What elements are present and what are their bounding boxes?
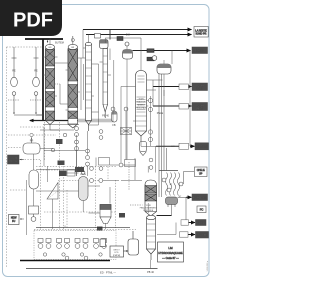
svg-text:GRO PCM: GRO PCM — [193, 196, 207, 200]
svg-text:PB 40: PB 40 — [147, 271, 154, 274]
svg-text:PDF: PDF — [13, 10, 53, 32]
svg-text:FB: FB — [112, 124, 116, 127]
svg-text:DM: DM — [126, 34, 130, 37]
svg-text:NEMENT: NEMENT — [137, 105, 145, 107]
svg-text:SMLM: SMLM — [80, 174, 86, 176]
svg-text:GAZOLE: GAZOLE — [197, 233, 208, 237]
svg-text:FRACTIONNEMENT: FRACTIONNEMENT — [140, 206, 158, 209]
svg-text:FRACTION: FRACTION — [136, 101, 146, 104]
svg-text:ORTLY: ORTLY — [113, 250, 120, 252]
svg-text:(PMPM): (PMPM) — [113, 255, 121, 257]
svg-text:— Code 87 —: — Code 87 — — [162, 256, 179, 260]
svg-text:BUTEM: BUTEM — [55, 42, 64, 45]
svg-text:LIVM: LIVM — [197, 106, 203, 110]
svg-text:PELE: PELE — [157, 112, 164, 115]
svg-text:BDBE: BDBE — [196, 49, 204, 53]
svg-text:KAND PR: KAND PR — [196, 33, 207, 36]
svg-text:RE: RE — [12, 70, 16, 73]
svg-text:1.000.000 a: 1.000.000 a — [207, 260, 209, 271]
svg-text:PRINCIPALE: PRINCIPALE — [136, 107, 147, 110]
svg-text:MDMEME: MDMEME — [196, 145, 208, 149]
svg-text:PDMB: PDMB — [10, 160, 18, 163]
svg-text:SOUS VIDE: SOUS VIDE — [143, 210, 154, 212]
svg-text:PB 40: PB 40 — [102, 115, 109, 118]
svg-text:HYDROCRAQUAGE: HYDROCRAQUAGE — [158, 251, 182, 255]
svg-text:TOUR: TOUR — [138, 99, 144, 101]
svg-text:RE: RE — [34, 70, 38, 73]
svg-text:ED · PTML —: ED · PTML — — [100, 271, 116, 275]
svg-text:FU: FU — [12, 220, 15, 223]
svg-text:LIGM: LIGM — [197, 87, 203, 91]
svg-text:LM: LM — [168, 246, 173, 250]
svg-text:FC: FC — [200, 208, 204, 212]
svg-text:TFG: TFG — [198, 221, 203, 225]
svg-text:UP: UP — [199, 172, 203, 175]
svg-text:RR: RR — [30, 140, 34, 143]
